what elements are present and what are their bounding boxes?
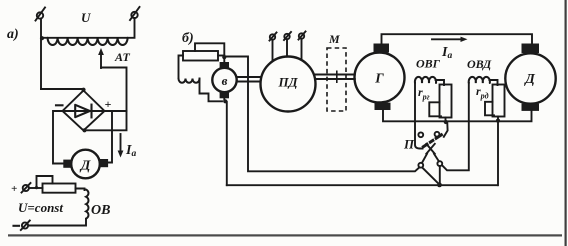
- svg-text:ОВГ: ОВГ: [416, 57, 441, 71]
- rheostat r_rg: [440, 85, 452, 118]
- field winding OVG: [415, 77, 436, 83]
- svg-text:+: +: [11, 183, 17, 195]
- motor D left brush: [63, 160, 71, 168]
- shaft v-PD: [237, 77, 260, 82]
- svg-text:ОВД: ОВД: [467, 57, 492, 71]
- wire X to lower contacts: [422, 154, 439, 163]
- switch upper jaw hook: [444, 123, 448, 137]
- terminal plus (bottom left): [11, 183, 31, 195]
- switch P lower contact left: [418, 163, 423, 168]
- motor D (left): [71, 150, 100, 179]
- exciter field rheostat: [183, 51, 218, 61]
- node at bridge bottom: [82, 128, 86, 132]
- wire r_rg bottom to bus: [445, 118, 447, 122]
- exciter top brush: [220, 62, 229, 69]
- r_rd tap loop: [485, 102, 494, 116]
- svg-text:б): б): [182, 31, 194, 46]
- svg-text:П: П: [403, 137, 415, 152]
- motor D right brush: [100, 159, 109, 167]
- shaft PD-G: [316, 75, 355, 80]
- autotransformer AT winding: [48, 38, 128, 45]
- generator G: [355, 53, 405, 103]
- diode inside bridge: [65, 105, 103, 118]
- page edge right: [565, 0, 567, 246]
- PD phase terminal 2: [284, 32, 291, 57]
- wire r_rd bottom down to lower bus: [497, 117, 499, 186]
- node on plus wire: [35, 186, 38, 189]
- svg-text:а): а): [7, 27, 19, 42]
- node at exciter top: [222, 55, 226, 59]
- switch P lower contact right: [437, 161, 442, 166]
- wire rheostat to OB coil: [76, 189, 85, 191]
- switch P crossover X: [426, 144, 435, 154]
- svg-text:ПД: ПД: [278, 75, 299, 90]
- svg-text:АТ: АТ: [114, 50, 131, 64]
- field winding OVD: [469, 77, 490, 83]
- svg-text:+: +: [105, 97, 112, 111]
- rheostat tap bracket (left circuit): [37, 176, 53, 188]
- G top brush: [374, 44, 390, 53]
- terminal T2 top-right: [130, 7, 140, 20]
- wire OVG left down to switch bracket: [415, 83, 423, 149]
- PD phase terminal 3: [299, 32, 306, 61]
- node at bridge top: [81, 88, 85, 92]
- switch pole node: [437, 183, 442, 188]
- field winding OB: [86, 190, 88, 219]
- Ia arrow (left): [118, 134, 124, 158]
- label minus: [56, 104, 63, 106]
- wire left vertical from T1: [40, 19, 42, 90]
- switch P upper contact left: [418, 132, 423, 137]
- top armature bus: [382, 34, 533, 44]
- lower bus (to switch pole): [227, 184, 498, 186]
- node r_rg on bus: [444, 120, 448, 124]
- rheostat r_rd: [493, 85, 505, 117]
- wire from T2 across coil top: [42, 18, 135, 38]
- wire lower-left contact to pole: [422, 168, 438, 184]
- wire OVD left down to contact wire: [442, 83, 469, 170]
- field rheostat (left circuit): [43, 184, 76, 193]
- D bottom brush: [522, 104, 540, 111]
- G bottom brush: [375, 103, 391, 110]
- wire down to motor right brush: [107, 111, 113, 163]
- D top brush: [522, 44, 540, 54]
- svg-text:в: в: [222, 73, 228, 88]
- node under exciter: [223, 99, 227, 103]
- wire lower-right contact to pole: [439, 166, 441, 183]
- exciter bottom brush: [220, 91, 229, 98]
- wire from tap to bridge bottom corner: [86, 68, 127, 131]
- wire plus corner to right: [105, 110, 127, 112]
- svg-text:ОВ: ОВ: [91, 203, 110, 218]
- terminal T1 top-left: [36, 8, 46, 21]
- wire exciter bottom to lower bus: [226, 102, 228, 185]
- svg-text:Д: Д: [523, 72, 535, 87]
- coupling M dashed box: [327, 48, 346, 111]
- svg-text:U=const: U=const: [18, 200, 63, 215]
- switch P blade: [421, 133, 443, 149]
- svg-text:U: U: [81, 10, 91, 25]
- wire exciter top to inner bus: [224, 57, 419, 172]
- node r_rd on bus: [496, 119, 500, 123]
- page rule bottom: [8, 234, 562, 236]
- exciter machine v: [212, 68, 236, 92]
- motor D (right): [505, 53, 555, 103]
- wire coil to bottom node: [200, 79, 223, 102]
- terminal minus (bottom left): [14, 221, 30, 231]
- node: coil left end junction: [40, 36, 44, 40]
- svg-text:М: М: [328, 32, 340, 46]
- svg-text:Г: Г: [374, 72, 384, 87]
- exciter field coil: [179, 56, 184, 79]
- AT tap arrow: [98, 48, 104, 68]
- prime mover PD: [261, 57, 316, 112]
- wire plus terminal to rheostat: [29, 187, 43, 189]
- rheostat tap bracket (exciter): [195, 43, 224, 56]
- PD phase terminal 1: [270, 33, 277, 62]
- Ia arrow (right): [432, 37, 468, 42]
- wire top feed to bridge: [41, 89, 84, 91]
- bridge rectifier diamond: [63, 91, 105, 131]
- svg-text:Д: Д: [79, 159, 91, 174]
- wire minus corner to motor left brush: [53, 111, 64, 164]
- switch P upper contact right: [435, 132, 440, 137]
- bottom armature bus: [383, 110, 532, 122]
- r_rg tap loop: [429, 102, 441, 116]
- wire rheostat to node: [218, 55, 224, 57]
- wire OB to minus terminal: [29, 219, 86, 226]
